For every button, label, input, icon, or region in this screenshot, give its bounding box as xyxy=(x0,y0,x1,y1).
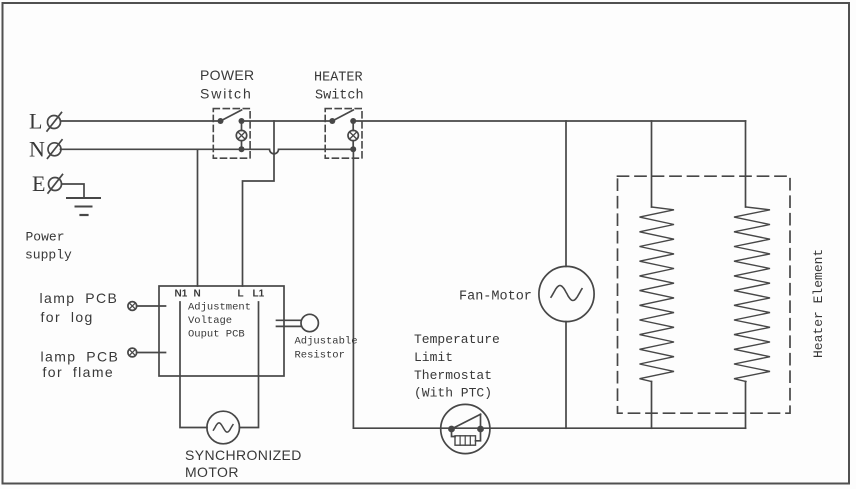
terminal N xyxy=(29,137,62,162)
svg-text:lamp PCB: lamp PCB xyxy=(40,290,119,306)
HEATER switch contacts xyxy=(329,118,335,124)
wire N line to PCB N terminal xyxy=(197,149,199,286)
svg-text:for log: for log xyxy=(41,309,94,325)
wire L line right xyxy=(353,120,745,122)
wire heater right bottom xyxy=(745,382,747,429)
svg-text:Ouput PCB: Ouput PCB xyxy=(188,329,245,341)
svg-text:Fan-Motor: Fan-Motor xyxy=(459,290,532,305)
wire bottom line xyxy=(353,427,745,429)
lamp PCB for flame symbol xyxy=(128,348,137,357)
HEATER lamp xyxy=(348,121,358,152)
svg-text:Limit: Limit xyxy=(414,350,453,365)
terminal L xyxy=(29,109,62,134)
HEATER switch lever xyxy=(332,110,353,121)
motor sine xyxy=(213,423,233,432)
wire heater left bottom xyxy=(651,382,653,429)
svg-text:L: L xyxy=(29,109,42,134)
svg-text:(With PTC): (With PTC) xyxy=(414,386,492,401)
adjustable resistor R1 xyxy=(301,314,318,331)
wire L line middle xyxy=(242,120,333,122)
ground xyxy=(67,198,100,215)
svg-text:Switch: Switch xyxy=(200,86,253,102)
HEATER switch dashed box xyxy=(325,109,362,159)
svg-text:lamp PCB: lamp PCB xyxy=(41,349,120,365)
lamp PCB for log symbol xyxy=(128,302,137,311)
POWER lamp xyxy=(236,121,246,152)
svg-text:Adjustment: Adjustment xyxy=(188,302,251,314)
svg-text:N: N xyxy=(194,289,201,300)
fan motor wire top xyxy=(565,121,567,266)
svg-text:MOTOR: MOTOR xyxy=(185,464,239,480)
wire lamp log to PCB xyxy=(137,305,166,307)
wire heater left drop xyxy=(651,121,653,207)
svg-text:HEATER: HEATER xyxy=(314,71,363,86)
adjustable resistor leads xyxy=(277,319,302,321)
svg-text:for flame: for flame xyxy=(43,364,115,380)
svg-text:Heater Element: Heater Element xyxy=(811,249,826,358)
svg-text:N1: N1 xyxy=(175,289,188,300)
heater element dashed box xyxy=(618,176,791,413)
synchronized motor M1 xyxy=(207,411,240,444)
svg-text:Adjustable: Adjustable xyxy=(295,336,358,348)
svg-text:N: N xyxy=(29,137,45,162)
heater element E2 zigzag xyxy=(734,207,770,382)
svg-text:POWER: POWER xyxy=(200,67,254,83)
wire heater switch down to bottom line xyxy=(352,149,354,428)
POWER switch dashed box xyxy=(213,109,250,159)
svg-text:L: L xyxy=(238,289,244,300)
wire lamp flame to PCB xyxy=(137,352,166,354)
svg-text:Thermostat: Thermostat xyxy=(414,368,492,383)
svg-text:Switch: Switch xyxy=(315,89,364,104)
svg-text:SYNCHRONIZED: SYNCHRONIZED xyxy=(185,447,302,463)
svg-text:Power: Power xyxy=(26,230,65,245)
wire N line with hop xyxy=(61,149,354,154)
svg-text:Voltage: Voltage xyxy=(188,315,232,327)
svg-text:E: E xyxy=(32,171,45,196)
terminal E xyxy=(32,171,63,196)
wire L line left xyxy=(61,120,221,122)
wire L1 terminal down to motor xyxy=(240,302,259,428)
wire L branch to PCB L terminal xyxy=(243,121,275,286)
fan motor wire bottom xyxy=(565,322,567,429)
fan motor M2 xyxy=(539,266,594,321)
heater element E1 zigzag xyxy=(640,207,675,382)
thermostat TH1 xyxy=(441,404,490,453)
POWER switch contacts xyxy=(218,118,224,124)
PCB box U1 xyxy=(159,286,284,376)
svg-text:Temperature: Temperature xyxy=(414,332,500,347)
fan sine xyxy=(551,286,582,301)
svg-text:Resistor: Resistor xyxy=(295,350,345,362)
svg-text:supply: supply xyxy=(25,248,72,263)
POWER switch lever xyxy=(221,110,242,121)
svg-text:L1: L1 xyxy=(253,289,265,300)
wire E to ground xyxy=(62,184,85,198)
wire N1 terminal down to motor xyxy=(180,302,207,428)
wire heater right drop xyxy=(745,121,747,207)
